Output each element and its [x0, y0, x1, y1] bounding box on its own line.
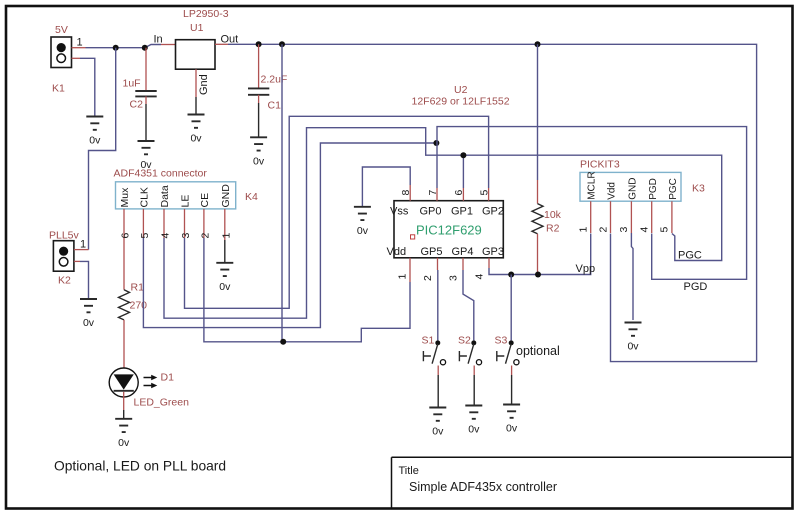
svg-text:5: 5: [139, 233, 151, 239]
resistor R2 10k: [532, 44, 543, 274]
svg-text:4: 4: [473, 274, 485, 280]
connector K3 PICKIT3: [580, 172, 681, 201]
wire S3 drop: [510, 275, 512, 341]
connector K1: [51, 37, 72, 68]
svg-text:GP3: GP3: [482, 246, 504, 258]
svg-text:3: 3: [448, 275, 460, 281]
svg-text:PGC: PGC: [678, 250, 702, 262]
svg-text:LE: LE: [180, 195, 192, 208]
switch S2: [459, 340, 481, 405]
svg-text:MCLR: MCLR: [587, 171, 598, 199]
pin Gnd stub U1: [195, 69, 197, 97]
wire 5V rail right: [228, 44, 757, 361]
svg-text:GP2: GP2: [482, 206, 504, 218]
node junction Vdd drop: [279, 41, 285, 47]
node junction GP1: [460, 152, 466, 158]
wire jog into U1 In: [145, 45, 161, 48]
svg-text:S1: S1: [422, 335, 435, 347]
wire CE net K4 pin2 to Vdd pin1: [204, 238, 410, 342]
wire K2 feed from rail: [89, 48, 116, 250]
pin 1 stub K1: [72, 47, 86, 49]
svg-text:5V: 5V: [55, 24, 68, 36]
svg-text:Optional, LED on PLL board: Optional, LED on PLL board: [54, 459, 226, 474]
svg-text:3: 3: [618, 227, 630, 233]
capacitor C1: [248, 44, 269, 137]
svg-text:R1: R1: [131, 282, 145, 294]
ground under K1: [86, 117, 103, 147]
svg-text:PLL5v: PLL5v: [49, 230, 80, 242]
svg-text:270: 270: [130, 300, 148, 312]
pin 1 stub K2: [74, 249, 89, 251]
svg-text:GP5: GP5: [421, 246, 443, 258]
svg-text:1: 1: [80, 239, 86, 251]
svg-text:C2: C2: [130, 99, 144, 111]
node junction S3: [508, 272, 514, 278]
pin stubs K3: [591, 201, 672, 233]
wire GP1 pin6 drop: [462, 155, 464, 188]
svg-text:GP4: GP4: [452, 246, 474, 258]
svg-text:K1: K1: [52, 83, 65, 95]
wire K4 GND pin to ground: [224, 240, 226, 262]
ground under Vss: [354, 207, 371, 237]
switch S1: [423, 340, 445, 407]
ground under S1: [429, 408, 446, 438]
svg-text:1: 1: [77, 37, 83, 49]
svg-text:Data: Data: [159, 185, 171, 207]
svg-text:1uF: 1uF: [123, 78, 141, 90]
svg-text:Vdd: Vdd: [387, 246, 407, 258]
regulator U1 LP2950-3: [176, 40, 216, 69]
svg-text:U2: U2: [454, 84, 468, 96]
svg-text:D1: D1: [161, 372, 175, 384]
wire GP5 to S1: [437, 270, 439, 340]
wire LE net K4 pin3 to GP2: [185, 116, 489, 308]
ground under K2: [80, 299, 97, 329]
wire Vdd drop from rail: [281, 44, 283, 342]
connector K4 ADF4351: [116, 182, 236, 209]
svg-text:2.2uF: 2.2uF: [261, 74, 288, 86]
svg-text:LP2950-3: LP2950-3: [183, 8, 229, 20]
svg-text:optional: optional: [516, 344, 560, 358]
switch S3: [497, 340, 519, 404]
svg-text:1: 1: [220, 233, 232, 239]
wire K2 pin2 to ground: [80, 261, 89, 298]
ground under U1: [188, 115, 205, 145]
svg-text:5: 5: [478, 190, 490, 196]
wire K3 GND pin3 to ground: [631, 233, 633, 320]
svg-text:C1: C1: [268, 100, 282, 112]
node junction R2: [535, 41, 541, 47]
svg-text:4: 4: [639, 227, 651, 233]
ground under K4 pin1: [216, 263, 233, 293]
svg-text:Vpp: Vpp: [576, 263, 596, 275]
svg-text:5: 5: [659, 227, 671, 233]
pin1 marker square: [411, 235, 415, 239]
svg-text:Vdd: Vdd: [607, 182, 618, 200]
ground under C2: [138, 141, 155, 171]
svg-text:1: 1: [397, 274, 409, 280]
connector K2: [53, 241, 74, 272]
svg-text:K2: K2: [58, 275, 71, 287]
LED arrows: [144, 378, 153, 386]
wire K1 pin2 to ground: [80, 58, 95, 116]
svg-text:GP0: GP0: [420, 206, 442, 218]
svg-text:ADF4351 connector: ADF4351 connector: [114, 168, 208, 180]
wire U1 gnd: [195, 97, 197, 114]
pin Out stub U1: [215, 43, 228, 45]
svg-text:12F629 or 12LF1552: 12F629 or 12LF1552: [412, 96, 510, 108]
svg-text:6: 6: [453, 190, 465, 196]
ground under S3: [503, 405, 520, 435]
wire Data net K4 pin4 to GP1 and PGC: [164, 128, 722, 319]
pin stubs U2 bottom: [410, 258, 489, 282]
svg-text:GND: GND: [220, 184, 232, 208]
svg-text:S3: S3: [495, 335, 508, 347]
svg-text:2: 2: [199, 233, 211, 239]
pin In stub U1: [161, 44, 176, 46]
svg-text:CLK: CLK: [139, 187, 151, 207]
wire GP4 to S2: [463, 270, 474, 340]
svg-text:4: 4: [160, 233, 172, 239]
pin stubs K4: [124, 209, 225, 240]
wire Vss pin8 to ground: [362, 167, 410, 206]
svg-text:R2: R2: [546, 223, 560, 235]
svg-text:10k: 10k: [544, 209, 562, 221]
node junction Vdd net: [280, 339, 286, 345]
wire CLK net K4 pin5 to GP0: [143, 143, 436, 328]
svg-text:Title: Title: [399, 465, 419, 477]
svg-text:LED_Green: LED_Green: [134, 397, 190, 409]
svg-text:Mux: Mux: [119, 187, 131, 208]
wire Vpp net GP3 to MCLR: [489, 234, 591, 275]
title block: [392, 457, 793, 508]
ground under K3: [625, 323, 642, 353]
node junction C1: [256, 41, 262, 47]
svg-text:2: 2: [422, 275, 434, 281]
svg-text:U1: U1: [190, 22, 204, 34]
ground under S2: [465, 406, 482, 436]
node junction K2 feed: [113, 45, 119, 51]
svg-text:PGD: PGD: [684, 281, 708, 293]
svg-text:1: 1: [578, 227, 590, 233]
svg-text:Simple ADF435x controller: Simple ADF435x controller: [409, 480, 557, 494]
node junction R2 bottom: [535, 272, 541, 278]
svg-text:6: 6: [120, 233, 132, 239]
svg-text:In: In: [154, 34, 163, 46]
svg-text:K3: K3: [692, 183, 705, 195]
svg-text:2: 2: [597, 227, 609, 233]
svg-text:PICKIT3: PICKIT3: [580, 159, 620, 171]
svg-text:K4: K4: [245, 191, 258, 203]
LED D1: [109, 368, 138, 418]
capacitor C2: [135, 48, 156, 141]
node junction C2: [142, 45, 148, 51]
pin 2 stub K2: [74, 260, 80, 262]
svg-text:PGD: PGD: [648, 178, 659, 200]
svg-text:Vss: Vss: [390, 206, 409, 218]
node junction GP0: [433, 140, 439, 146]
resistor R1 270: [119, 238, 130, 368]
pin 2 stub K1: [72, 57, 81, 59]
svg-text:PIC12F629: PIC12F629: [416, 223, 482, 238]
ground under C1: [250, 137, 267, 167]
PIC U2 body: [394, 201, 503, 258]
svg-text:GP1: GP1: [451, 206, 473, 218]
wire 5V rail left: [86, 47, 145, 49]
wire PGD net GP0 to PICKIT pin4: [437, 127, 747, 280]
svg-text:7: 7: [427, 190, 439, 196]
svg-text:CE: CE: [199, 193, 211, 208]
svg-text:GND: GND: [628, 178, 639, 200]
pin stubs U2 top: [410, 185, 488, 201]
svg-text:S2: S2: [458, 335, 471, 347]
svg-text:3: 3: [180, 233, 192, 239]
svg-text:PGC: PGC: [668, 178, 679, 200]
ground under LED: [115, 419, 132, 449]
svg-text:Gnd: Gnd: [198, 74, 210, 95]
svg-text:8: 8: [400, 190, 412, 196]
